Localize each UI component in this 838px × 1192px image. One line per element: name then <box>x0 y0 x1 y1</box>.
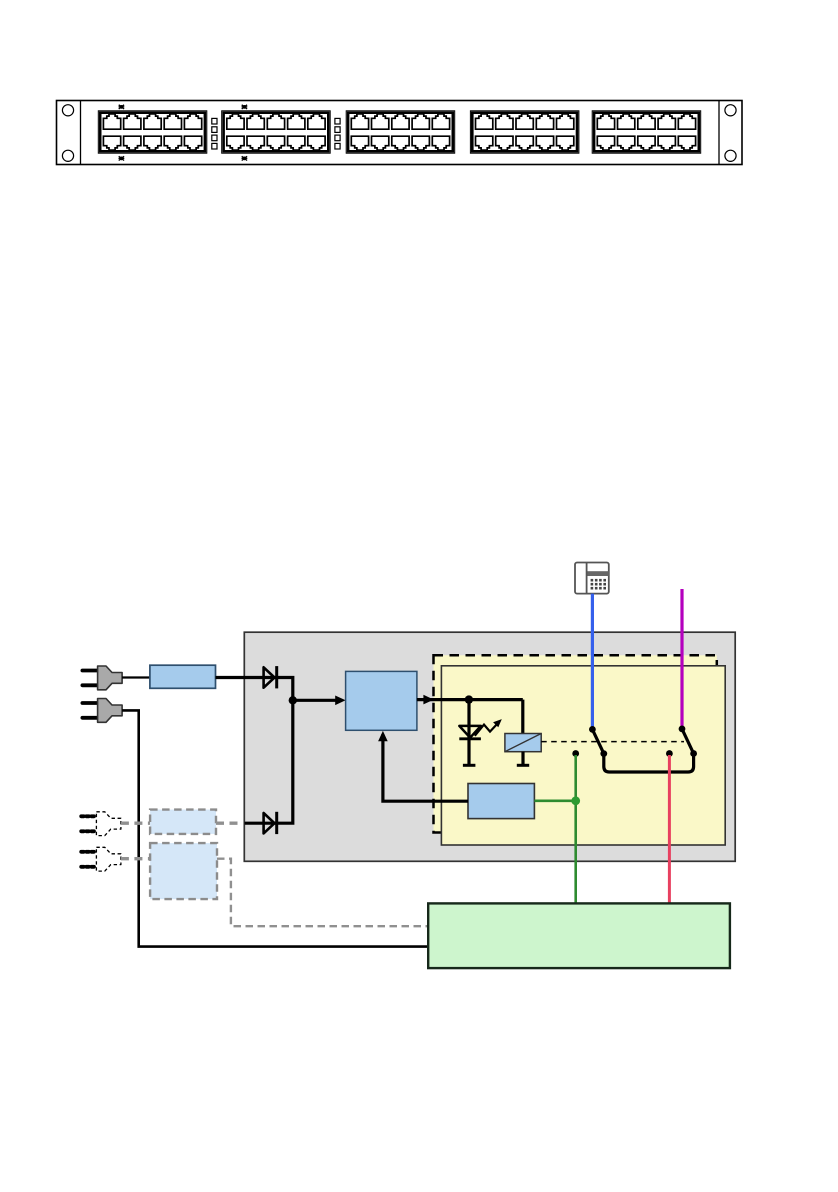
PSU filter box <box>150 665 216 688</box>
jack group 3 port 6 (bottom row) <box>351 136 368 150</box>
jack group 1 port 6 (bottom row) <box>103 136 120 150</box>
protector unit grey enclosure <box>244 632 735 861</box>
relay bottom terminal <box>517 752 529 766</box>
green wire detector to node <box>534 799 575 802</box>
left ear hole bottom <box>62 150 73 161</box>
jack group 4 port 7 (bottom row) <box>496 136 513 150</box>
jack group 3 port 4 (top row) <box>412 114 429 129</box>
jack group 1 port 7 (bottom row) <box>124 136 141 150</box>
green wire from switch to alarm panel <box>574 755 577 903</box>
jack group 4 port 6 (bottom row) <box>476 136 493 150</box>
surge arrester triangle <box>459 726 481 738</box>
wire D1 to junction <box>277 678 293 701</box>
optional plug P3 (dashed) <box>81 812 121 836</box>
jack group 5 port 1 (top row) <box>597 114 614 129</box>
left ear hole top <box>62 105 73 116</box>
jack group 4 frame <box>470 111 579 153</box>
jack group 4 port 10 (bottom row) <box>557 136 574 150</box>
protection module dashed outline box <box>434 655 717 832</box>
jack group 4 port 5 (top row) <box>557 114 574 129</box>
wire D2 up to junction J1 <box>277 700 293 823</box>
wire plug2 to alarm panel <box>122 710 428 946</box>
jack group 5 port 9 (bottom row) <box>658 136 675 150</box>
jack group 1 port 4 (top row) <box>164 114 181 129</box>
switch S2 common node (magenta) <box>679 726 686 733</box>
jack group 1 port 2 (top row) <box>124 114 141 129</box>
jack group 5 port 3 (top row) <box>638 114 655 129</box>
green junction node <box>571 796 580 805</box>
jack group 4 port 4 (top row) <box>536 114 553 129</box>
switch S1 blade <box>592 729 603 753</box>
flash arrow <box>475 719 502 736</box>
jack group 3 port 7 (bottom row) <box>372 136 389 150</box>
jack group 1 port 1 (top row) <box>103 114 120 129</box>
wire grey box edge to diode D2 <box>244 822 276 825</box>
jack group 5 port 2 (top row) <box>618 114 635 129</box>
jack group 3 port 8 (bottom row) <box>392 136 409 150</box>
jack group 4 port 2 (top row) <box>496 114 513 129</box>
wire down to relay coil <box>521 700 524 734</box>
jack group 5 port 4 (top row) <box>658 114 675 129</box>
wire regulator output with arrow into module <box>417 698 523 701</box>
jack group 2 port 8 (bottom row) <box>267 136 284 150</box>
LED indicator column 2 <box>335 118 340 124</box>
jack group 2 port 7 (bottom row) <box>247 136 264 150</box>
switch S1 closed contact <box>600 750 607 757</box>
regulator box <box>346 671 417 730</box>
line detector box <box>468 784 534 819</box>
jack group 3 port 2 (top row) <box>372 114 389 129</box>
blue telephone wire <box>591 594 594 730</box>
jack group 5 port 6 (bottom row) <box>597 136 614 150</box>
red wire from switch to alarm panel <box>668 755 671 903</box>
jack group 5 port 10 (bottom row) <box>678 136 695 150</box>
right mounting ear divider <box>718 101 720 165</box>
left mounting ear divider <box>80 101 82 165</box>
jack group 3 port 5 (top row) <box>432 114 449 129</box>
magenta exchange wire <box>680 589 683 729</box>
junction node J1 <box>289 696 297 704</box>
jack group 4 port 3 (top row) <box>516 114 533 129</box>
diode D1 <box>264 666 277 688</box>
switch S2 blade <box>682 729 694 754</box>
switch S2 open contact (to red) <box>666 750 673 757</box>
dashed wire box2 to alarm panel <box>217 859 428 927</box>
screw mark below group 1 <box>119 156 125 160</box>
jack group 5 port 5 (top row) <box>678 114 695 129</box>
screw mark above group 1 <box>119 105 125 109</box>
alarm panel green box <box>428 903 730 968</box>
optional plug P4 (dashed) <box>81 847 121 871</box>
jack group 3 port 1 (top row) <box>351 114 368 129</box>
jack group 2 port 3 (top row) <box>267 114 284 129</box>
jack group 3 port 3 (top row) <box>392 114 409 129</box>
mains plug P1 <box>82 666 122 690</box>
surge arrester ground terminal <box>463 764 476 767</box>
jack group 3 frame <box>346 111 455 153</box>
jack group 5 port 8 (bottom row) <box>638 136 655 150</box>
switch S1 common node (blue) <box>589 726 596 733</box>
jack group 2 port 5 (top row) <box>308 114 325 129</box>
jack group 2 port 9 (bottom row) <box>288 136 305 150</box>
jack group 4 port 1 (top row) <box>476 114 493 129</box>
switch S1 open contact (to green) <box>572 750 579 757</box>
wire detector to regulator (feedback) <box>383 734 468 801</box>
relay mechanical link (dashed) <box>541 741 684 743</box>
jack group 2 port 10 (bottom row) <box>308 136 325 150</box>
relay coil K1 <box>505 734 541 752</box>
jack group 1 port 3 (top row) <box>144 114 161 129</box>
surge arrester bar <box>459 737 481 740</box>
jack group 3 port 10 (bottom row) <box>432 136 449 150</box>
protection module solid yellow box <box>441 666 725 845</box>
jack group 2 port 2 (top row) <box>247 114 264 129</box>
patch panel chassis <box>57 101 743 165</box>
U-link between switch closed contacts <box>604 754 694 773</box>
jack group 2 port 1 (top row) <box>227 114 244 129</box>
screw mark above group 2 <box>242 105 248 109</box>
dashed wire plug4 to box2 <box>121 857 150 860</box>
telephone icon <box>575 563 609 594</box>
jack group 3 port 9 (bottom row) <box>412 136 429 150</box>
optional PSU box 1 (dashed) <box>150 810 216 834</box>
dashed wire box1 to grey box <box>216 822 244 825</box>
jack group 5 frame <box>592 111 701 153</box>
jack group 1 port 10 (bottom row) <box>184 136 201 150</box>
screw mark below group 2 <box>242 156 248 160</box>
optional UPS box 2 (dashed) <box>150 843 217 899</box>
jack group 1 port 8 (bottom row) <box>144 136 161 150</box>
jack group 1 port 5 (top row) <box>184 114 201 129</box>
right ear hole top <box>725 105 736 116</box>
jack group 2 port 6 (bottom row) <box>227 136 244 150</box>
LED indicator column 1 <box>212 118 217 124</box>
junction node J2 <box>465 695 473 703</box>
diode D2 <box>264 812 277 834</box>
jack group 4 port 9 (bottom row) <box>536 136 553 150</box>
jack group 1 port 9 (bottom row) <box>164 136 181 150</box>
dashed wire plug3 to box1 <box>121 822 150 825</box>
wire PSU to diode D1 <box>216 676 277 679</box>
right ear hole bottom <box>725 150 736 161</box>
jack group 2 port 4 (top row) <box>288 114 305 129</box>
switch S2 closed contact <box>690 750 697 757</box>
wire plug1 to PSU <box>122 676 150 678</box>
wire J1 to regulator with arrow <box>293 699 337 702</box>
jack group 2 frame <box>222 111 331 153</box>
mains plug P2 <box>82 699 122 723</box>
surge arrester vertical wire <box>467 700 470 766</box>
jack group 5 port 7 (bottom row) <box>618 136 635 150</box>
jack group 4 port 8 (bottom row) <box>516 136 533 150</box>
jack group 1 frame <box>98 111 207 153</box>
